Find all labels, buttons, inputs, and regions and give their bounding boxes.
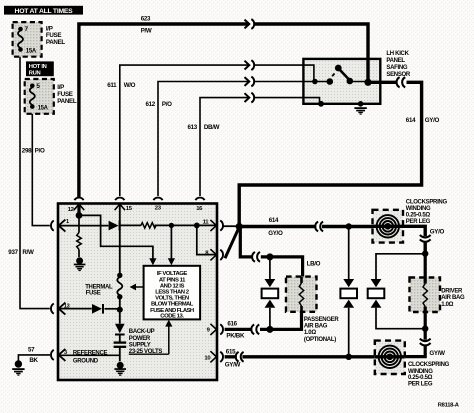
svg-text:GY/W: GY/W	[429, 350, 445, 357]
junction 615/left squib	[346, 354, 352, 360]
svg-text:AIR BAG: AIR BAG	[441, 295, 465, 301]
inline connector on wire 611	[245, 60, 255, 70]
wire rail thermal fuse to backup diode	[119, 297, 121, 324]
note box IF VOLTAGE AT PINS 11 AND 12 ...	[144, 266, 201, 320]
ground (module, left)	[74, 257, 86, 271]
pin 1 label	[66, 219, 69, 225]
air bag diagnostic monitor box	[58, 204, 217, 381]
wire driver bag bottom to clockspring	[424, 312, 427, 340]
svg-text:PANEL: PANEL	[57, 98, 77, 105]
svg-text:GY/O: GY/O	[430, 228, 445, 235]
svg-text:SAFING: SAFING	[386, 65, 408, 71]
svg-text:IF VOLTAGE: IF VOLTAGE	[157, 271, 187, 277]
pin 8 label	[205, 250, 209, 256]
safing sensor switch arm	[332, 65, 353, 85]
svg-text:613: 613	[188, 124, 198, 131]
pin 11 label	[203, 219, 210, 225]
svg-text:P/O: P/O	[162, 101, 172, 108]
svg-text:HOT IN: HOT IN	[29, 64, 47, 70]
svg-text:10: 10	[204, 355, 211, 361]
svg-text:VOLTS, THEN: VOLTS, THEN	[155, 296, 189, 302]
inline connector on wire 613	[245, 93, 255, 103]
wire 623 P/W thick feed from pin 12 to safing sensor	[79, 24, 368, 198]
junction passenger squib bottom	[266, 326, 273, 333]
svg-text:1: 1	[66, 219, 69, 225]
svg-text:15A: 15A	[38, 106, 49, 112]
svg-text:PK/BK: PK/BK	[226, 333, 245, 340]
label 611 W/O	[107, 82, 135, 89]
svg-text:GY/W: GY/W	[225, 362, 241, 369]
junction driver-airbag bottom node	[422, 326, 428, 332]
svg-text:12: 12	[68, 207, 75, 213]
wire 614 GY/O vertical + across + down to junction	[239, 82, 421, 224]
svg-text:1.0Ω: 1.0Ω	[441, 302, 453, 308]
svg-text:15A: 15A	[26, 48, 37, 54]
svg-text:AND 12 IS: AND 12 IS	[160, 283, 185, 289]
svg-text:LH KICK: LH KICK	[386, 51, 409, 57]
junction passenger squib top	[266, 253, 273, 260]
svg-text:BACK-UP: BACK-UP	[129, 329, 155, 335]
junction pin 12 node	[76, 212, 83, 219]
wire 611 jog inside sensor	[303, 65, 314, 80]
svg-text:937: 937	[8, 249, 18, 256]
label 615 GY/W	[225, 349, 241, 369]
wire 612 P/O from pin 23 to safing sensor	[158, 82, 303, 197]
sensor contact line (611/612)	[303, 78, 333, 85]
label CLOCKSPRING WINDING 0.25-0.5 ohm PER LEG (top)	[406, 199, 448, 225]
label HOT IN RUN	[26, 61, 54, 76]
inline connector on GY/W vertical	[420, 339, 431, 346]
wire pin 8 internal	[197, 225, 217, 254]
label 57 BK	[28, 346, 39, 364]
inline connector on 615	[236, 352, 244, 362]
label THERMAL FUSE	[85, 284, 113, 296]
svg-text:15: 15	[126, 206, 133, 212]
wire diagonal pin 8 to 614 junction	[225, 228, 239, 258]
pin 8 connector (right)	[210, 249, 223, 260]
arrow backup supply to note box	[165, 320, 172, 355]
svg-text:SUPPLY: SUPPLY	[129, 343, 151, 349]
wire 611 W/O from pin 15 to safing sensor	[120, 65, 304, 196]
svg-text:0.25-0.5Ω: 0.25-0.5Ω	[408, 375, 433, 381]
svg-text:PANEL: PANEL	[386, 58, 405, 64]
pin 9 label	[207, 327, 211, 333]
ground G57 (body ground)	[12, 360, 24, 375]
svg-text:PER LEG: PER LEG	[408, 382, 433, 388]
capacitor backup supply	[114, 343, 127, 362]
label 298 P/O	[22, 148, 45, 155]
wire 615 GY/W pin 10 to clockspring (thick)	[225, 355, 375, 358]
svg-text:614: 614	[269, 217, 279, 224]
pin 23 label	[155, 206, 162, 212]
svg-text:RUN: RUN	[29, 71, 41, 77]
wire 614 out of sensor (thick)	[368, 81, 397, 84]
clockspring winding (top) box	[373, 210, 404, 243]
svg-text:1.0Ω: 1.0Ω	[304, 330, 316, 336]
label 623 P/W	[141, 16, 152, 35]
svg-text:GROUND: GROUND	[73, 358, 99, 364]
junction driver-airbag top node	[422, 250, 428, 256]
svg-text:FUSE: FUSE	[57, 91, 72, 98]
clockspring winding (bottom) box	[375, 341, 405, 374]
pin 10 label	[204, 355, 211, 361]
svg-text:GY/O: GY/O	[425, 117, 440, 124]
svg-text:P/W: P/W	[141, 28, 152, 35]
svg-text:FUSE: FUSE	[46, 32, 61, 39]
wire 298 P/O from fuse 5 to pin 1	[32, 114, 50, 226]
inline connector on passenger feed	[252, 252, 260, 262]
ground (module, backup supply)	[114, 362, 126, 376]
wire link to right driver squib	[376, 254, 425, 279]
inline connector on wire 623	[245, 19, 255, 29]
svg-text:614: 614	[406, 117, 416, 124]
wire pin12 node to logic (L path to note box)	[79, 215, 157, 265]
sensor case ground	[354, 101, 366, 115]
wire pin 13 into module	[59, 308, 92, 310]
label LH KICK PANEL SAFING SENSOR	[386, 51, 411, 78]
svg-text:REFERENCE: REFERENCE	[73, 350, 108, 356]
wire pin 1 to pin12 node	[59, 225, 79, 227]
pin 15 connector (top)	[115, 198, 125, 211]
svg-text:AIR BAG: AIR BAG	[304, 324, 328, 330]
svg-text:BLOW THERMAL: BLOW THERMAL	[151, 302, 194, 308]
pin 13 label	[64, 303, 70, 309]
label PASSENGER AIR BAG 1.0 ohm (OPTIONAL)	[304, 317, 339, 343]
junction pin 11 line / logic	[169, 223, 174, 228]
pin 3 connector (left)	[51, 349, 65, 361]
svg-text:HOT AT ALL TIMES: HOT AT ALL TIMES	[15, 8, 74, 15]
wire pin12 node to diode	[79, 225, 108, 227]
passenger air bag box	[286, 277, 317, 312]
wire 57 BK from pin 3 to ground	[18, 355, 50, 362]
wire from 614 junction down and right (to passenger bag node)	[240, 227, 252, 257]
label BACK-UP POWER SUPPLY 23-25 VOLTS	[129, 329, 163, 355]
junction 614/driver squib column	[346, 223, 352, 229]
arrow note box to thermal fuse	[130, 284, 144, 291]
thermal fuse element	[117, 277, 122, 299]
junction node 614 at module	[236, 223, 243, 230]
svg-text:POWER: POWER	[129, 336, 151, 342]
label 616 PK/BK	[226, 321, 245, 340]
svg-text:DRIVER: DRIVER	[441, 289, 463, 295]
fuse F7 I/P fuse panel box	[13, 22, 42, 57]
diode D3 (backup supply)	[115, 324, 125, 342]
svg-text:CLOCKSPRING: CLOCKSPRING	[406, 199, 448, 205]
inline connector on wire 612	[245, 77, 255, 87]
pin 15 label	[126, 206, 133, 212]
inline connector sensor output	[397, 77, 406, 87]
wire pin 3 reference ground	[59, 354, 120, 356]
svg-text:WINDING: WINDING	[406, 206, 431, 212]
label 612 P/O	[146, 101, 173, 108]
diode D2 (pin 13 feed)	[92, 304, 120, 314]
label 613 DB/W	[188, 124, 220, 131]
svg-text:P/O: P/O	[35, 148, 45, 155]
pin 12 connector (top)	[74, 198, 84, 215]
wire 616 PK/BK pin 9 to passenger bag	[225, 328, 252, 331]
svg-text:AT PINS 11: AT PINS 11	[159, 277, 186, 283]
passenger squib igniter	[262, 257, 279, 330]
underline 23-25 VOLTS pointer	[129, 353, 169, 355]
svg-text:298: 298	[22, 148, 32, 155]
label I/P FUSE PANEL (fuse 5)	[57, 84, 77, 105]
left driver squib igniter	[340, 227, 357, 357]
junction 623/614 in sensor	[364, 79, 371, 86]
label I/P FUSE PANEL (fuse 7)	[46, 25, 66, 46]
resistor sense (pin 12 to ground)	[77, 215, 82, 257]
label 614 GY/O (horizontal run)	[268, 217, 283, 237]
svg-text:PANEL: PANEL	[46, 39, 66, 46]
svg-text:WINDING: WINDING	[408, 369, 433, 375]
pin 3 label	[64, 350, 67, 356]
wire 937 R/W from fuse 7 to pin 13	[20, 57, 50, 309]
junction pin 11 line / pin 8	[194, 223, 200, 229]
svg-text:FUSE: FUSE	[86, 290, 101, 296]
svg-text:PER LEG: PER LEG	[406, 219, 431, 225]
pin 16 label	[196, 206, 203, 212]
pin 13 connector (left)	[51, 303, 65, 315]
svg-text:CODE 13.: CODE 13.	[160, 314, 184, 320]
wire pin 11 internal line	[120, 224, 141, 226]
svg-text:DB/W: DB/W	[204, 124, 220, 131]
pin 16 connector (top)	[195, 198, 204, 201]
svg-text:16: 16	[196, 206, 203, 212]
svg-text:LB/O: LB/O	[307, 260, 321, 267]
driver air bag box	[410, 254, 441, 312]
diagram id R8118-A	[438, 403, 460, 409]
pin 10 connector (right)	[210, 351, 223, 362]
svg-text:LESS THAN 2: LESS THAN 2	[155, 290, 190, 296]
wire 613 DB/W from pin 16 to safing sensor	[200, 98, 303, 196]
right driver squib igniter	[368, 279, 426, 329]
svg-text:PASSENGER: PASSENGER	[304, 317, 339, 323]
svg-text:23: 23	[155, 206, 162, 212]
wire 614 GY/O to clockspring (thick)	[239, 225, 372, 228]
svg-text:R8118-A: R8118-A	[438, 403, 460, 409]
inline connector on GY/O vertical	[420, 235, 431, 242]
label DRIVER AIR BAG 1.0 ohm	[441, 289, 465, 308]
resistor on pin 11 line	[141, 223, 156, 228]
label HOT AT ALL TIMES	[4, 6, 83, 15]
svg-text:R/W: R/W	[22, 249, 34, 256]
label 937 R/W	[8, 249, 34, 256]
diode D1 (pin 1 feed)	[109, 221, 120, 231]
svg-text:615: 615	[226, 349, 236, 356]
pin 9 connector (right)	[210, 324, 223, 335]
label 614 GY/O (vertical run)	[406, 117, 440, 124]
svg-text:BK: BK	[29, 357, 38, 364]
fuse F5 I/P fuse panel box	[25, 79, 54, 114]
svg-text:612: 612	[146, 101, 156, 108]
pin 11 connector (right)	[210, 220, 236, 231]
wire junction to note box (pin 11 sense)	[168, 225, 175, 265]
svg-text:(OPTIONAL): (OPTIONAL)	[304, 337, 336, 343]
svg-text:0.25-0.5Ω: 0.25-0.5Ω	[406, 213, 431, 219]
sensor wire from switch to 623 node	[350, 81, 367, 83]
pin 1 connector (left)	[51, 220, 65, 232]
LH kick panel safing sensor box	[303, 59, 380, 104]
svg-text:616: 616	[227, 321, 237, 328]
svg-text:I/P: I/P	[57, 84, 64, 91]
wire GY/O from clockspring down to driver bag	[403, 226, 425, 253]
pin 12 label	[68, 207, 75, 213]
label CLOCKSPRING WINDING 0.25-0.5 ohm PER LEG (bottom)	[408, 362, 450, 387]
svg-text:GY/O: GY/O	[268, 230, 283, 237]
label GY/W at driver bag output	[429, 350, 445, 357]
pin 23 connector (top)	[153, 198, 162, 201]
label REFERENCE GROUND	[73, 350, 108, 364]
wire main vertical rail (pin 15)	[117, 204, 122, 278]
svg-text:W/O: W/O	[124, 82, 136, 89]
svg-text:623: 623	[141, 16, 151, 23]
wire 613 jog to sensor case	[303, 98, 324, 107]
junction pin 13 node	[117, 307, 123, 313]
label LB/O	[307, 260, 321, 267]
svg-text:CLOCKSPRING: CLOCKSPRING	[408, 362, 450, 368]
inline connector on 614 run	[315, 222, 323, 232]
label GY/O at clockspring output	[430, 228, 445, 235]
svg-text:57: 57	[28, 346, 35, 353]
svg-text:611: 611	[107, 82, 117, 89]
